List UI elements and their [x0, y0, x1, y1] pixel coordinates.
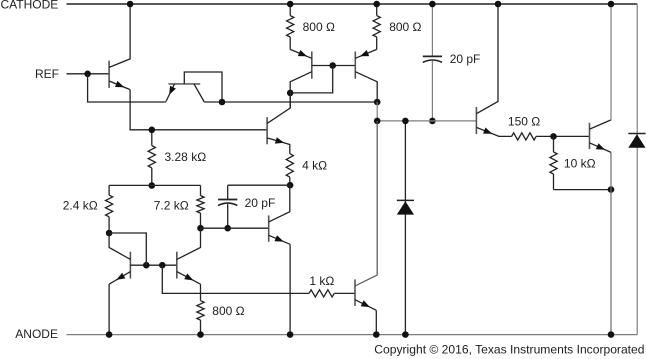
wire REF lead — [67, 73, 110, 75]
junction dot Q10 emitter at anode rail — [608, 331, 615, 338]
junction dot D1 bottom at anode rail — [402, 331, 409, 338]
svg-text:2.4 kΩ: 2.4 kΩ — [63, 199, 98, 213]
node REF junction dot — [84, 71, 91, 78]
svg-text:4 kΩ: 4 kΩ — [302, 159, 327, 173]
capacitor 20 pF (bottom) — [227, 185, 229, 199]
junction dot Q9 emitter at anode rail — [373, 331, 380, 338]
svg-text:CATHODE: CATHODE — [1, 0, 59, 12]
resistor 10 kOhm — [553, 136, 555, 152]
wire Q1 emitter to Q3 base — [130, 90, 267, 130]
wire REF node down to level-shift rail — [88, 74, 166, 102]
wire cathode top rail — [67, 3, 638, 5]
junction dot 800 Ohm right at cathode rail — [373, 1, 380, 8]
transistor Q8 — [176, 252, 178, 279]
transistor Q9 — [354, 279, 356, 306]
wire 7.2k node to Q11 base — [201, 227, 269, 229]
junction dot 150 Ohm to 10k node — [550, 133, 557, 140]
diode D2 — [636, 4, 638, 335]
transistor Q1 — [108, 61, 110, 88]
junction dot Q6 collector at cathode rail — [495, 1, 502, 8]
junction dot Q1 collector at cathode rail — [127, 1, 134, 8]
junction dot cap bottom at Q6 base rail — [429, 118, 436, 125]
wire Q10 collector to cathode rail — [610, 4, 612, 120]
wire Q7-Q8 base tie — [130, 264, 176, 266]
svg-text:20 pF: 20 pF — [450, 52, 481, 66]
wire mirror output down to Q6 base rail — [376, 102, 378, 121]
junction dot current mirror node — [287, 90, 294, 97]
wire Q7 emitter to anode rail — [108, 284, 110, 334]
junction dot 800 Ohm left at cathode rail — [287, 1, 294, 8]
junction dot 2.4k bottom at Q7 collector — [106, 230, 113, 237]
transistor Q7 — [129, 252, 131, 279]
junction dot Q7 emitter at anode rail — [106, 331, 113, 338]
transistor Q2 — [168, 83, 200, 85]
junction dot 4k bottom node — [287, 182, 294, 189]
transistor Q3 — [266, 117, 268, 144]
junction dot cap top at cathode rail — [429, 1, 436, 8]
wire cap2 top to 4k bottom node — [228, 184, 290, 186]
junction dot cap2 bottom at 7.2k rail — [224, 225, 231, 232]
svg-text:3.28 kΩ: 3.28 kΩ — [165, 150, 207, 164]
wire Q9 emitter to anode rail — [375, 310, 377, 334]
resistor 150 Ohm — [512, 133, 536, 140]
resistor 800 Ohm (bottom) — [200, 284, 202, 301]
junction dot 10k bottom at Q10 emitter — [608, 186, 615, 193]
resistor 3.28 kOhm — [151, 130, 153, 146]
svg-text:REF: REF — [35, 67, 59, 81]
svg-text:800 Ω: 800 Ω — [389, 20, 421, 34]
wire lower mirror to 1k resistor — [162, 265, 309, 293]
junction dot base tie to collector loop — [143, 262, 150, 269]
svg-text:ANODE: ANODE — [15, 327, 58, 341]
wire Q2 base tie to collector — [184, 72, 222, 102]
svg-text:800 Ω: 800 Ω — [212, 304, 244, 318]
wire 3.28k bottom node rail — [109, 184, 200, 186]
svg-text:1 kΩ: 1 kΩ — [309, 274, 334, 288]
junction dot Q11 emitter at anode rail — [287, 331, 294, 338]
wire base tie down to mirror node — [290, 66, 333, 93]
transistor Q10 — [589, 123, 591, 149]
wire 10k bottom to Q10 emitter — [554, 189, 612, 191]
resistor 7.2 kOhm — [200, 185, 202, 195]
transistor Q6 — [475, 107, 477, 134]
wire Q10 emitter to anode rail — [610, 152, 612, 334]
wire Q4-Q5 base tie — [312, 65, 356, 67]
junction dot 3.28k bottom node — [149, 182, 156, 189]
transistor Q11 — [268, 215, 270, 241]
resistor 800 Ohm (right) — [376, 4, 378, 16]
svg-text:800 Ω: 800 Ω — [303, 20, 335, 34]
svg-text:Copyright © 2016, Texas Instru: Copyright © 2016, Texas Instruments Inco… — [374, 342, 644, 356]
wire base tie up to 2.4k node — [109, 233, 146, 265]
svg-text:7.2 kΩ: 7.2 kΩ — [154, 199, 189, 213]
wire Q11 emitter to anode rail — [289, 244, 291, 334]
wire Q6 base rail — [377, 120, 476, 122]
junction dot 7.2k bottom node — [197, 225, 204, 232]
junction dot Q10 collector at cathode rail — [608, 1, 615, 8]
junction dot 800 Ohm bottom at anode rail — [197, 331, 204, 338]
resistor 1 kOhm — [309, 290, 334, 297]
resistor 800 Ohm (left) — [289, 4, 291, 16]
junction dot base tie to Q9 base branch — [159, 262, 166, 269]
resistor 4 kOhm — [286, 154, 293, 178]
junction dot D1 top at Q6 base rail — [402, 118, 409, 125]
junction dot Q2 base-collector tie — [219, 99, 226, 106]
svg-text:150 Ω: 150 Ω — [508, 115, 540, 129]
diode D1 — [404, 121, 406, 335]
transistor Q4 — [311, 52, 313, 79]
junction dot base tie midpoint — [329, 62, 336, 69]
wire Q2 collector rail to mirror node — [204, 101, 377, 103]
svg-text:20 pF: 20 pF — [245, 196, 276, 210]
junction dot Q6 base rail left — [374, 118, 381, 125]
junction dot Q3 base rail at 3.28k top — [149, 127, 156, 134]
transistor Q5 — [354, 52, 356, 79]
svg-text:10 kΩ: 10 kΩ — [564, 157, 596, 171]
resistor 2.4 kOhm — [108, 185, 110, 195]
wire anode bottom rail — [67, 334, 638, 336]
junction dot collector rail to Q6 base branch — [374, 99, 381, 106]
capacitor 20 pF (top) — [431, 4, 433, 56]
